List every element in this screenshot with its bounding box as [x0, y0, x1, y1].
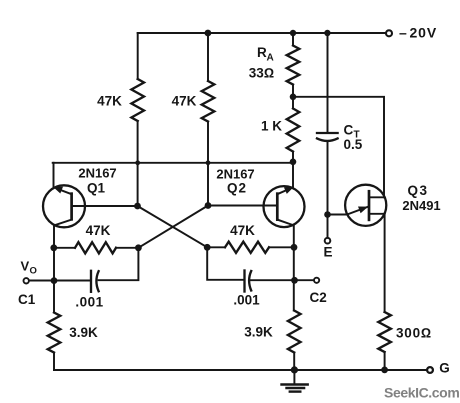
svg-text:33Ω: 33Ω	[249, 66, 274, 81]
svg-text:47K: 47K	[86, 223, 111, 238]
svg-text:R: R	[257, 45, 267, 60]
svg-text:3.9K: 3.9K	[244, 325, 273, 340]
svg-text:2N167: 2N167	[216, 167, 254, 182]
svg-text:2N167: 2N167	[78, 166, 116, 181]
svg-text:V: V	[21, 259, 30, 274]
svg-text:Q2: Q2	[227, 181, 247, 196]
svg-text:A: A	[267, 53, 274, 64]
svg-text:.001: .001	[75, 295, 103, 310]
svg-text:0.5: 0.5	[344, 137, 363, 152]
svg-text:Q3: Q3	[407, 183, 428, 198]
svg-text:C: C	[344, 123, 354, 138]
svg-text:47K: 47K	[172, 94, 197, 109]
svg-text:47K: 47K	[230, 223, 255, 238]
svg-text:3.9K: 3.9K	[69, 325, 98, 340]
svg-text:20V: 20V	[410, 25, 438, 41]
svg-text:G: G	[439, 361, 450, 376]
svg-text:2N491: 2N491	[402, 198, 440, 213]
svg-text:47K: 47K	[97, 94, 122, 109]
svg-text:Q1: Q1	[87, 181, 106, 196]
svg-text:300Ω: 300Ω	[396, 326, 432, 341]
svg-text:O: O	[30, 266, 37, 277]
svg-text:E: E	[323, 245, 332, 260]
svg-text:1 K: 1 K	[261, 119, 282, 134]
svg-text:SeekIC.com: SeekIC.com	[384, 385, 459, 401]
svg-text:.001: .001	[233, 293, 260, 308]
svg-text:–: –	[399, 25, 407, 41]
svg-text:C2: C2	[310, 290, 327, 305]
svg-text:C1: C1	[18, 292, 36, 307]
